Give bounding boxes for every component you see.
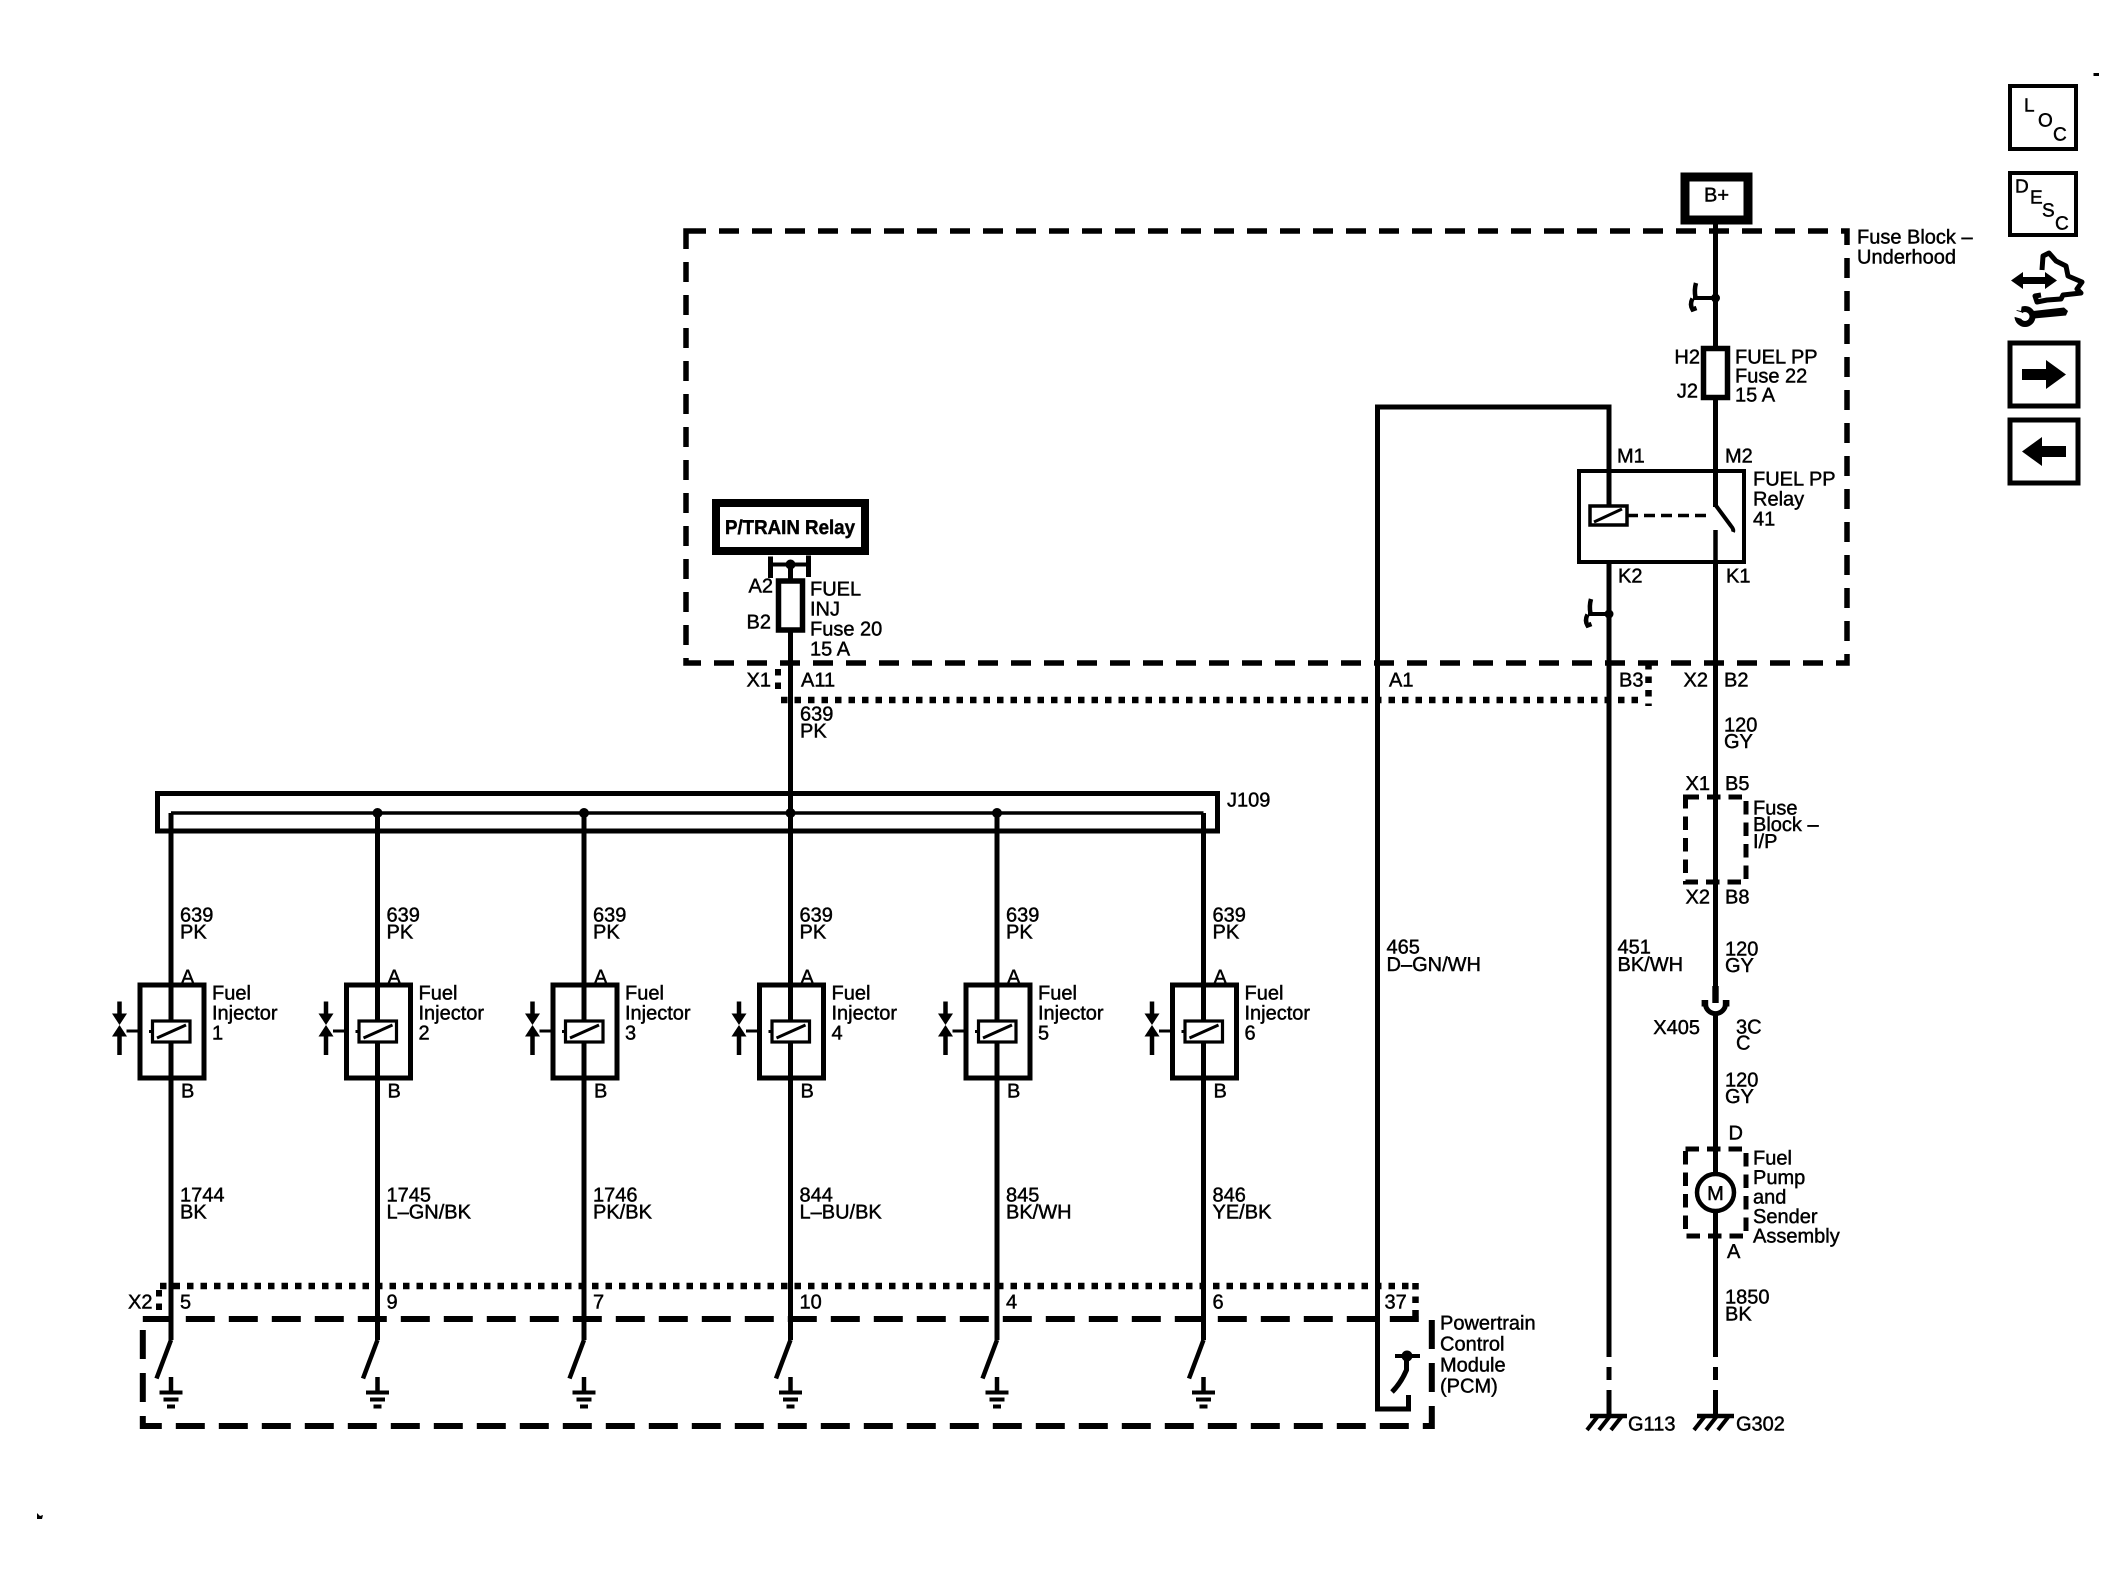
pin label 9 PCM [387,1292,398,1314]
svg-text:M: M [1707,1183,1724,1205]
svg-text:5: 5 [180,1292,191,1314]
wire label injector 3 output [593,1185,653,1224]
pin label X2 underhood [1684,670,1708,692]
svg-text:3: 3 [625,1023,636,1045]
splice pack J109 [158,790,1271,832]
icon DESC button [2010,173,2076,235]
wire pump to 1850 BK [1713,1211,1718,1344]
pin B injector 6 [1214,1081,1227,1103]
svg-text:X2: X2 [128,1292,152,1314]
icon LOC button [2010,86,2076,149]
pin A injector 2 [388,967,402,989]
PCM ground injector 4 [779,1377,802,1407]
relay K41 coil-contact dashed link [1627,514,1706,518]
pin label 7 PCM [593,1292,604,1314]
pin label 10 PCM [800,1292,822,1314]
label Fuel Injector 2 [419,983,485,1045]
svg-text:B: B [801,1081,814,1103]
svg-text:Control: Control [1440,1334,1504,1356]
fuel pump motor M [1697,1174,1734,1211]
svg-text:A2: A2 [749,576,773,598]
PCM driver switch injector 2 [363,1340,378,1379]
label 3C C [1736,1017,1762,1055]
label Fuel Injector 3 [625,983,691,1045]
svg-text:B8: B8 [1725,887,1749,909]
wire label 639 PK injector 1 [180,905,213,944]
svg-text:X1: X1 [747,670,771,692]
svg-text:P/TRAIN Relay: P/TRAIN Relay [725,517,856,539]
pin B injector 2 [388,1081,401,1103]
svg-text:Fuse 20: Fuse 20 [810,619,882,641]
svg-text:15 A: 15 A [1735,385,1776,407]
wire label 465 D-GN/WH [1387,937,1481,977]
svg-text:B2: B2 [747,612,771,634]
svg-text:FUEL PP: FUEL PP [1753,469,1836,491]
svg-text:Fuel: Fuel [212,983,251,1005]
svg-text:Injector: Injector [1038,1003,1104,1025]
svg-text:PK: PK [1006,922,1033,944]
pin label 5 PCM [180,1292,191,1314]
svg-text:15 A: 15 A [810,639,851,661]
svg-text:Assembly: Assembly [1753,1226,1840,1248]
svg-text:B5: B5 [1725,773,1749,795]
svg-text:9: 9 [387,1292,398,1314]
PCM ground injector 5 [986,1377,1009,1407]
svg-text:X2: X2 [1684,670,1708,692]
inline connector X405 [1702,986,1730,1014]
svg-text:S: S [2042,201,2055,222]
fuel pump and sender assembly dashed box [1686,1148,1840,1248]
wire 465 D-GN/WH vertical [1378,407,1409,1409]
stray mark top right [2094,73,2100,76]
fuse block underhood dashed box [686,227,1973,664]
PCM driver switch injector 5 [983,1340,998,1379]
fuel injector 4 box [760,985,824,1078]
svg-text:H2: H2 [1674,347,1700,369]
wire label 120 GY lower [1725,1070,1758,1109]
svg-text:INJ: INJ [810,599,840,621]
svg-text:B: B [1007,1081,1020,1103]
svg-text:I/P: I/P [1753,831,1777,853]
fuse F22 FUEL PP Fuse 22 15A [1674,347,1817,407]
wire fuse22 to relay M2 [1713,398,1718,508]
svg-text:L–BU/BK: L–BU/BK [800,1202,883,1224]
pin B injector 4 [801,1081,814,1103]
pin label B5 IP [1725,773,1749,795]
wire relay K2 down [1607,562,1612,1344]
svg-text:D: D [1729,1123,1743,1145]
powertrain control module dashed box [143,1313,1536,1427]
label box P/TRAIN Relay [716,503,865,551]
wire 639 PK to injector 5 [995,813,1000,1340]
stray mark bottom left [37,1513,43,1519]
ground G302 [1694,1414,1785,1436]
label Fuel Injector 4 [832,983,898,1045]
PCM driver switch injector 4 [776,1340,791,1379]
svg-text:K1: K1 [1726,566,1750,588]
svg-text:C: C [1736,1033,1750,1055]
svg-text:L: L [2024,96,2035,117]
wire label injector 2 output [387,1185,472,1224]
PCM ground injector 3 [573,1377,596,1407]
wire 639 PK to injector 4 [788,813,793,1340]
svg-text:10: 10 [800,1292,822,1314]
svg-text:Injector: Injector [1245,1003,1311,1025]
pin label X2 PCM [128,1292,152,1314]
svg-text:A11: A11 [801,670,835,692]
svg-text:D: D [2015,177,2029,198]
svg-text:C: C [2055,214,2069,235]
pin label 37 PCM [1385,1292,1407,1314]
PCM ground injector 1 [160,1377,183,1407]
svg-text:GY: GY [1724,731,1753,753]
relay K41 coil [1590,506,1627,525]
wire label 639 PK injector 6 [1213,905,1246,944]
clip on B+ feed wire [1691,283,1720,310]
fuel injector 2 box [347,985,411,1078]
pin A injector 3 [594,967,608,989]
svg-text:GY: GY [1725,955,1754,977]
svg-text:PK: PK [800,922,827,944]
svg-text:PK: PK [593,922,620,944]
ground G113 [1587,1414,1675,1436]
svg-text:Fuel: Fuel [1245,983,1284,1005]
battery terminal B+ [1685,177,1748,220]
wire label 120 GY mid [1725,939,1758,978]
wire label 120 GY upper [1724,715,1757,754]
fuel injector 5 coil [975,1021,1016,1042]
svg-text:YE/BK: YE/BK [1213,1202,1273,1224]
label Fuel Injector 1 [212,983,278,1045]
svg-text:Fuse Block –: Fuse Block – [1857,227,1973,249]
relay K41 switch blade [1716,505,1734,532]
svg-text:BK/WH: BK/WH [1618,954,1684,976]
svg-text:K2: K2 [1618,566,1642,588]
fuel injector 1 coil [149,1021,190,1042]
injector 5 valve symbol [938,1002,966,1056]
svg-text:Injector: Injector [212,1003,278,1025]
wire 120 GY to pump [1713,1014,1718,1174]
fuel injector 1 box [140,985,204,1078]
svg-text:PK: PK [180,922,207,944]
svg-text:J109: J109 [1227,790,1270,812]
wire label 639 PK injector 3 [593,905,626,944]
svg-text:X1: X1 [1686,773,1710,795]
svg-text:B+: B+ [1704,185,1729,207]
wire 639 PK to injector 2 [375,813,380,1340]
wire label 1850 BK [1725,1287,1770,1326]
svg-text:2: 2 [419,1023,430,1045]
svg-text:D–GN/WH: D–GN/WH [1387,954,1481,976]
injector 1 valve symbol [112,1002,140,1056]
svg-text:B: B [594,1081,607,1103]
fuse F20 FUEL INJ Fuse 20 15A [747,576,883,661]
svg-text:G302: G302 [1736,1414,1785,1436]
connector row X1 A11 dotted line [778,663,1649,706]
wire label injector 5 output [1006,1185,1072,1224]
wire label 451 BK/WH [1618,937,1684,977]
wire 120 GY B2 down [1713,562,1718,987]
fuel injector 6 coil [1182,1021,1223,1042]
svg-text:X405: X405 [1653,1017,1700,1039]
label Fuel Injector 5 [1038,983,1104,1045]
svg-text:7: 7 [593,1292,604,1314]
clip on K2 wire [1586,599,1614,626]
fuel injector 3 box [553,985,617,1078]
pin B injector 1 [181,1081,194,1103]
svg-text:BK: BK [180,1202,207,1224]
PCM driver switch injector 3 [570,1340,585,1379]
pin A injector 5 [1007,967,1021,989]
svg-text:Module: Module [1440,1355,1506,1377]
icon back arrow button [2010,420,2078,483]
svg-text:E: E [2030,188,2043,209]
relay K41 K1 contact stub [1713,530,1718,562]
svg-text:Relay: Relay [1753,489,1804,511]
svg-text:C: C [2053,125,2067,146]
wire 639 PK fuse20 to J109 [788,630,793,813]
pin label B3 [1619,670,1643,692]
pin label B8 IP [1725,887,1749,909]
svg-text:B: B [1214,1081,1227,1103]
injector 3 valve symbol [525,1002,553,1056]
pin B injector 3 [594,1081,607,1103]
wire 465 horizontal run [1375,405,1609,507]
pin label X2 IP [1686,887,1710,909]
relay K41 FUEL PP Relay box [1579,446,1836,588]
svg-text:37: 37 [1385,1292,1407,1314]
wire 639 PK to injector 6 [1201,813,1206,1340]
PCM driver symbol pin 37 [1392,1351,1420,1393]
svg-text:A: A [1727,1241,1741,1263]
fuel injector 2 coil [356,1021,397,1042]
wire label 639 PK main [800,704,833,743]
wire 1850 dashed to G302 [1713,1344,1718,1416]
svg-text:J2: J2 [1677,381,1698,403]
pin label X1 [747,670,771,692]
pin label 4 PCM [1006,1292,1017,1314]
svg-text:5: 5 [1038,1023,1049,1045]
fuse block IP dashed box [1686,797,1820,882]
PCM driver switch injector 1 [157,1340,172,1379]
svg-text:BK/WH: BK/WH [1006,1202,1072,1224]
wire label 639 PK injector 5 [1006,905,1039,944]
svg-text:B3: B3 [1619,670,1643,692]
svg-text:Powertrain: Powertrain [1440,1313,1536,1335]
pin label A pump [1727,1241,1741,1263]
pin label A1 [1389,670,1413,692]
PCM ground injector 2 [366,1377,389,1407]
svg-text:O: O [2038,111,2053,132]
svg-text:Injector: Injector [419,1003,485,1025]
PCM driver switch injector 6 [1189,1340,1204,1379]
pin B injector 5 [1007,1081,1020,1103]
wire 639 PK to injector 3 [582,813,587,1340]
svg-text:M2: M2 [1725,446,1753,468]
wire 451 dashed to G113 [1607,1344,1612,1416]
svg-text:B2: B2 [1724,670,1748,692]
svg-text:Fuel: Fuel [625,983,664,1005]
svg-text:41: 41 [1753,509,1775,531]
label Fuel Injector 6 [1245,983,1311,1045]
pin label 6 PCM [1213,1292,1224,1314]
svg-text:FUEL: FUEL [810,579,861,601]
injector 4 valve symbol [732,1002,760,1056]
svg-text:Underhood: Underhood [1857,247,1956,269]
fuel injector 3 coil [562,1021,603,1042]
svg-text:A1: A1 [1389,670,1413,692]
svg-text:Fuel: Fuel [1038,983,1077,1005]
pin A injector 6 [1214,967,1228,989]
connector row X2 PCM dotted line [159,1283,1416,1316]
svg-text:4: 4 [832,1023,843,1045]
pin label X1 IP [1686,773,1710,795]
svg-text:B: B [388,1081,401,1103]
pin label D pump [1729,1123,1743,1145]
wire label 639 PK injector 2 [387,905,420,944]
fuel injector 6 box [1173,985,1237,1078]
svg-text:Fuel: Fuel [419,983,458,1005]
wire label injector 4 output [800,1185,883,1224]
svg-text:Fuel: Fuel [832,983,871,1005]
svg-text:PK: PK [800,721,827,743]
injector 6 valve symbol [1145,1002,1173,1056]
svg-text:6: 6 [1213,1292,1224,1314]
wire label injector 6 output [1213,1185,1273,1224]
svg-text:X2: X2 [1686,887,1710,909]
svg-text:4: 4 [1006,1292,1017,1314]
label X405 [1653,1017,1700,1039]
pin label A11 [801,670,835,692]
icon vehicle-with-wrench [2008,253,2082,327]
svg-text:PK/BK: PK/BK [593,1202,653,1224]
svg-text:GY: GY [1725,1086,1754,1108]
wire label injector 1 output [180,1185,225,1224]
svg-text:Injector: Injector [625,1003,691,1025]
icon forward arrow button [2010,343,2078,406]
svg-text:Injector: Injector [832,1003,898,1025]
wire B+ to fuse 22 [1713,220,1718,349]
pin label B2 underhood [1724,670,1748,692]
svg-text:BK: BK [1725,1304,1752,1326]
wire label 639 PK injector 4 [800,905,833,944]
fuel injector 4 coil [769,1021,810,1042]
fuel injector 5 box [966,985,1030,1078]
svg-text:6: 6 [1245,1023,1256,1045]
svg-text:M1: M1 [1617,446,1645,468]
svg-text:(PCM): (PCM) [1440,1376,1498,1398]
pin A injector 1 [181,967,195,989]
svg-text:L–GN/BK: L–GN/BK [387,1202,472,1224]
svg-text:PK: PK [387,922,414,944]
injector 2 valve symbol [319,1002,347,1056]
svg-text:1: 1 [212,1023,223,1045]
PCM ground injector 6 [1192,1377,1215,1407]
svg-text:B: B [181,1081,194,1103]
svg-text:G113: G113 [1628,1414,1675,1436]
svg-text:PK: PK [1213,922,1240,944]
wire 639 PK to injector 1 [169,813,174,1340]
wire ptrain to fuse20 [788,565,793,582]
ptrain relay feed bracket [771,556,809,579]
pin A injector 4 [801,967,815,989]
